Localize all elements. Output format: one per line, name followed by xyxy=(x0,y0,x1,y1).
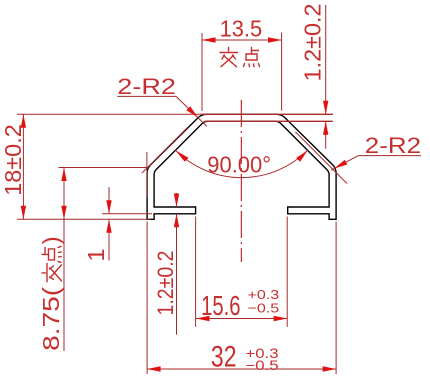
arrowhead 32 left xyxy=(147,366,161,371)
wall face extension line left xyxy=(146,152,148,197)
dimension line 13.5 xyxy=(202,39,282,41)
arrowhead 18 bottom xyxy=(21,206,26,220)
arrowhead 32 right xyxy=(323,366,337,371)
svg-text:): ) xyxy=(38,236,64,244)
svg-text:−0.5: −0.5 xyxy=(248,301,280,316)
arrowhead arc left xyxy=(175,150,188,162)
dimension text 8.75(jiaodian) (rotated) xyxy=(38,236,64,351)
profile cross-section outline (black) xyxy=(147,114,336,219)
chamfer face extension line right xyxy=(296,132,348,184)
arrowhead 13.5 right xyxy=(268,37,282,42)
arrowhead 15.6 right xyxy=(274,316,288,321)
arrowhead 8.75 top xyxy=(61,168,66,182)
extension line at top outer face y=114.3 xyxy=(201,113,333,115)
svg-text:90.00°: 90.00° xyxy=(207,152,271,178)
extension line 18 bottom xyxy=(17,218,151,220)
leader 2-R2 left underline xyxy=(117,95,176,97)
svg-text:1: 1 xyxy=(83,249,109,262)
extension line at top inner face y=121.3 xyxy=(204,120,332,122)
svg-text:15.6: 15.6 xyxy=(201,290,240,321)
arrowhead 1 upper xyxy=(106,200,111,214)
dimension line 32 xyxy=(147,368,336,370)
arrowhead 18 top xyxy=(21,114,26,128)
angular dimension arc 90 degrees xyxy=(175,150,307,177)
extension line 18 top xyxy=(17,113,202,115)
dimension line 1.2 top right upper segment xyxy=(325,5,327,114)
arrowhead 1.2 bottom upper xyxy=(174,194,179,208)
extension line 13.5 left xyxy=(201,33,203,111)
svg-text:1.2±0.2: 1.2±0.2 xyxy=(300,3,326,81)
dimension line 8.75 xyxy=(63,168,65,352)
arrowhead 1.2 top right lower xyxy=(323,121,328,135)
leader 2-R2 left diagonal xyxy=(176,96,207,126)
text jiaodian (intersection point) below 13.5, drawn strokes xyxy=(220,48,260,67)
arrowhead 1.2 bottom lower xyxy=(174,214,179,228)
arrowhead arc right xyxy=(296,150,307,162)
dimension line 1 lower segment xyxy=(108,219,110,260)
chamfer face extension line left xyxy=(142,127,188,173)
leader 2-R2 right diagonal xyxy=(331,156,358,171)
extension line 13.5 right xyxy=(281,33,283,111)
arrowhead 8.75 bottom xyxy=(61,206,66,220)
extension line 8.75 top xyxy=(58,167,147,169)
svg-text:32: 32 xyxy=(211,341,237,374)
svg-text:1.2±0.2: 1.2±0.2 xyxy=(153,251,178,316)
dimension line 18 xyxy=(22,114,24,219)
svg-text:13.5: 13.5 xyxy=(220,15,263,41)
svg-text:18±0.2: 18±0.2 xyxy=(0,124,26,196)
arrowhead 15.6 left xyxy=(196,316,210,321)
leader 2-R2 right underline xyxy=(358,155,421,157)
svg-text:2-R2: 2-R2 xyxy=(117,74,176,99)
arrowhead 1 lower xyxy=(106,219,111,233)
arrowhead 1.2 top right upper xyxy=(323,101,328,115)
arrowhead leader 2-R2 right xyxy=(334,160,347,169)
arrowhead leader 2-R2 left xyxy=(186,106,198,117)
extension line 15.6 right xyxy=(286,217,288,327)
svg-text:2-R2: 2-R2 xyxy=(365,133,421,158)
arrowhead 13.5 left xyxy=(202,37,216,42)
dimension line 1.2 bottom lower segment xyxy=(176,214,178,335)
dimension line 1.2 top right lower segment xyxy=(325,121,327,148)
dimension line 15.6 xyxy=(196,318,287,320)
dimension line 1.2 bottom upper segment xyxy=(176,193,178,207)
extension line 32 right xyxy=(335,222,337,375)
svg-text:−0.5: −0.5 xyxy=(246,357,279,373)
extension line 32 left xyxy=(146,222,148,375)
dimension line 1 upper segment xyxy=(108,187,110,214)
vertical centerline (dash-dot) xyxy=(240,100,242,262)
extension line flange bottom xyxy=(102,213,152,215)
extension line 15.6 left xyxy=(195,217,197,327)
svg-text:8.75(: 8.75( xyxy=(38,287,64,351)
